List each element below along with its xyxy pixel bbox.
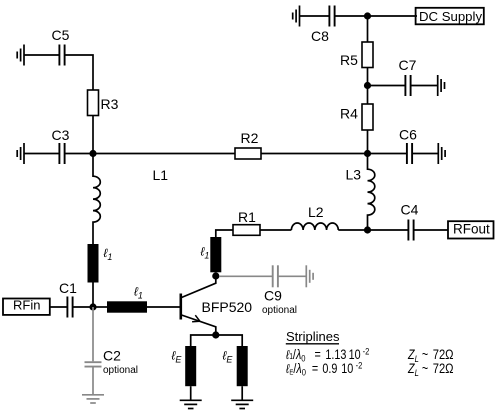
ground at C9 [306,265,313,287]
wire node to R2 [93,153,235,155]
wire C9 to ground [278,275,306,277]
node emitter junction [212,331,219,338]
svg-text:L2: L2 [308,204,324,220]
svg-text:DC Supply: DC Supply [419,9,482,24]
optional capacitor C2 branch (grey) [82,307,104,403]
resistor R3 [88,90,99,116]
svg-text:RFin: RFin [13,298,40,313]
wire L2 to node [338,229,367,231]
capacitor C4 [408,220,413,241]
stripline l1 horizontal [107,301,147,312]
capacitor C8 [329,6,334,27]
resistor R1 [233,225,260,236]
capacitor C5 [59,45,64,66]
stripline l1 vertical [88,244,99,283]
ground at C8 [293,6,300,27]
port RFout box [448,221,494,238]
svg-text:RFout: RFout [453,221,490,236]
wire node to C4 [368,229,409,231]
wire stripline to R1 [216,230,233,237]
svg-text:optional: optional [262,305,297,316]
stripline lE right [237,346,248,386]
wire emitter rail [191,335,243,346]
capacitor C1 [67,297,72,318]
wire node to stripline [93,306,107,308]
transistor emitter arrow [192,315,200,322]
label formula line 1 [285,346,369,364]
wire C7 to ground [411,85,438,87]
wire stripline to RFin node [92,283,94,308]
svg-text:L1: L1 [153,167,169,183]
inductor L1 [93,154,100,245]
ground at C5 [17,45,24,66]
capacitor C6 [407,143,412,164]
resistor R4 [362,104,373,130]
svg-text:Striplines: Striplines [286,329,340,344]
svg-text:R4: R4 [340,106,358,122]
wire stripline to ground right [241,386,243,400]
node DC supply junction [364,12,371,19]
wire C2 to ground [92,367,94,395]
label formula line 2 [285,360,362,378]
port RFin box [3,299,50,315]
svg-text:C7: C7 [399,57,417,73]
wire R1 to L2 [260,229,291,231]
wire C5 to corner to R3 [65,55,93,90]
node RFin junction [89,303,96,310]
wire stripline to ground left [190,386,192,400]
wire C4 to RFout [414,229,448,231]
svg-text:optional: optional [103,365,138,376]
optional capacitor C9 branch (grey) [219,265,313,287]
wire collector to C9 [219,275,273,277]
inductor L3 [368,154,375,231]
wire C8 to DC node [335,15,368,17]
capacitor C9 [273,265,278,287]
svg-text:R2: R2 [241,130,259,146]
svg-text:C9: C9 [264,288,282,304]
svg-text:C2: C2 [103,348,121,364]
inductor L2 [291,223,338,230]
node output junction [364,226,371,233]
wire node to R4 [367,86,369,105]
svg-text:L3: L3 [346,167,362,183]
wire stripline to base [147,306,180,308]
port DC Supply box [416,8,484,25]
ground emitter right [231,400,253,408]
stripline lE left [185,346,196,386]
svg-text:C6: C6 [399,127,417,143]
svg-text:BFP520: BFP520 [202,299,253,315]
wire node to C6 [368,153,407,155]
transistor collector lead [182,276,216,298]
ground at C6 [438,143,445,164]
svg-text:R3: R3 [101,96,119,112]
underline Striplines [286,343,339,345]
wire node to DC Supply box [368,15,418,17]
wire C3 to node [65,153,93,155]
wire C1 to node [73,306,93,308]
wire RFin to C1 [50,306,67,308]
wire node to C7 [368,85,406,87]
svg-text:C1: C1 [59,280,77,296]
resistor R2 [235,148,261,159]
node R4/R2/C6/L3 junction [364,150,371,157]
svg-text:C8: C8 [311,28,329,44]
node C3/R3/L1 junction [89,150,96,157]
wire C6 to ground [412,153,438,155]
wire node to C2 [92,307,94,361]
wire R4 to node [367,130,369,154]
svg-text:R5: R5 [340,52,358,68]
ground at C2 [82,395,104,403]
capacitor C3 [59,143,64,164]
svg-text:ℓE/λ0 = 0.9 10-2: ℓE/λ0 = 0.9 10-2 [285,360,362,378]
transistor emitter lead [182,315,216,335]
svg-text:C4: C4 [401,202,419,218]
capacitor C2 [85,362,102,366]
wire node to R5 [367,16,369,42]
wire collector to stripline [215,272,217,276]
svg-text:ZL ~ 72Ω: ZL ~ 72Ω [407,361,453,378]
svg-text:C5: C5 [52,27,70,43]
capacitor C7 [405,75,410,96]
label ZL line 1 [407,347,453,364]
wire ground to C3 [24,153,59,155]
wire ground to C5 [24,54,59,56]
wire R5 to node [367,68,369,86]
node R5/R4/C7 junction [364,82,371,89]
wire ground to C8 [300,15,330,17]
ground emitter left [180,400,202,408]
wire R2 to right node [261,153,368,155]
ground at C3 [17,143,24,164]
wire R3 to node [92,116,94,154]
svg-text:C3: C3 [52,127,70,143]
label ZL line 2 [407,361,453,378]
node collector junction [212,272,219,279]
stripline l1 collector [210,237,221,272]
transistor Q1 BFP520 base bar [180,294,183,320]
ground at C7 [438,75,445,96]
resistor R5 [362,42,373,68]
svg-text:R1: R1 [238,209,256,225]
